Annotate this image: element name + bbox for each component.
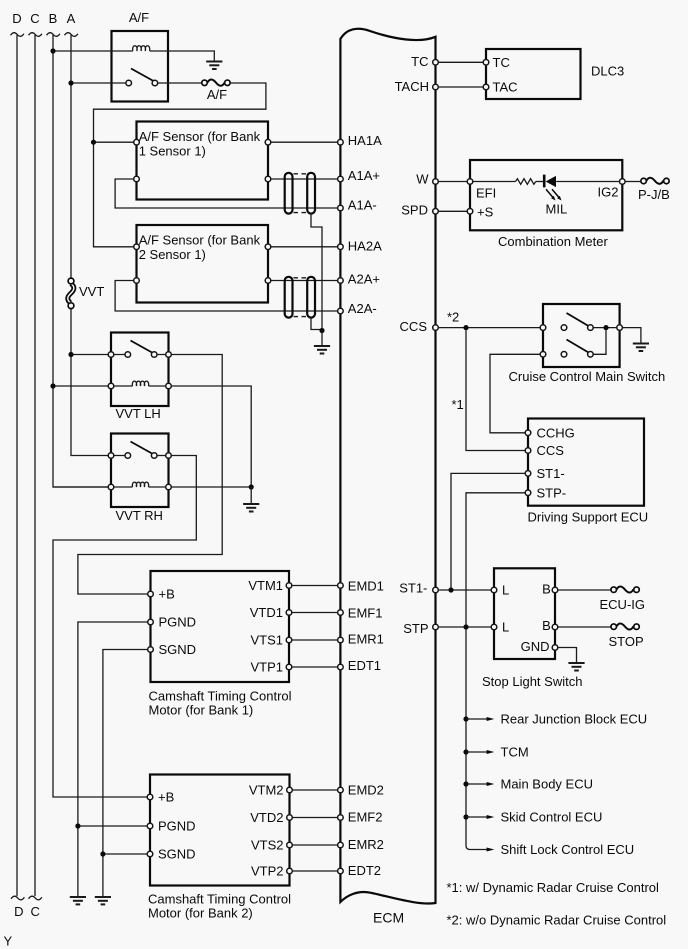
svg-text:EDT1: EDT1 <box>348 658 381 673</box>
pin bank2 right top <box>265 244 271 250</box>
svg-text:VTD2: VTD2 <box>250 810 283 825</box>
wire EDT1 <box>292 666 338 668</box>
pin +B bank1 <box>148 591 154 597</box>
camshaft motor bank1 box <box>151 571 290 682</box>
svg-text:CCS: CCS <box>400 319 428 334</box>
wire relay coil to ground <box>150 51 215 61</box>
wire A to VVT LH switch <box>71 354 126 356</box>
svg-text:ST1-: ST1- <box>537 466 565 481</box>
junction STP <box>463 624 468 629</box>
wire cruise right edge to ground <box>622 328 641 343</box>
junction VVT coils ground <box>249 484 254 489</box>
svg-text:VTS1: VTS1 <box>250 633 283 648</box>
svg-text:Camshaft Timing Control: Camshaft Timing Control <box>148 892 291 907</box>
ground PGND <box>70 897 86 904</box>
cruise switch bottom contact right <box>588 352 594 358</box>
DLC3 box <box>486 49 581 99</box>
fuse P-J/B <box>638 178 670 202</box>
wire VVT ground stem <box>250 487 252 504</box>
cruise switch bottom contact left <box>561 352 567 358</box>
ground at relay <box>206 62 222 70</box>
junction rear junction block <box>463 716 468 721</box>
svg-text:MIL: MIL <box>546 201 568 216</box>
ECM pin W <box>433 179 439 185</box>
VVT RH pin switch left edge <box>108 453 114 459</box>
svg-text:VVT: VVT <box>79 284 104 299</box>
ECM pin HA1A <box>338 139 344 145</box>
VVT RH switch contact left <box>125 453 131 459</box>
svg-text:W: W <box>416 172 429 187</box>
svg-text:VTD1: VTD1 <box>250 605 283 620</box>
svg-text:A: A <box>67 11 76 26</box>
svg-text:*1: *1 <box>452 397 464 412</box>
wire TC to DLC3 <box>438 61 483 63</box>
svg-text:ECU-IG: ECU-IG <box>600 597 646 612</box>
wire DSECU STP- down <box>466 493 525 627</box>
arrow rear junction block ECU <box>466 718 487 720</box>
svg-text:EMD1: EMD1 <box>348 579 384 594</box>
svg-text:STP-: STP- <box>537 485 567 500</box>
svg-text:Skid Control ECU: Skid Control ECU <box>501 810 603 825</box>
fuse STOP <box>609 623 644 649</box>
svg-text:A2A-: A2A- <box>348 301 377 316</box>
pin bank1 right top <box>265 139 271 145</box>
VVT LH box <box>111 333 169 407</box>
svg-text:TACH: TACH <box>395 79 429 94</box>
ground VVT coils <box>243 504 259 512</box>
ECM pin EMF2 <box>338 815 344 821</box>
wire VVT RH coil to ground junction <box>149 486 252 488</box>
DLC3 pin TC <box>483 60 489 66</box>
cruise pin bottom-left edge <box>540 352 546 358</box>
svg-text:D: D <box>14 904 23 919</box>
resistor MIL <box>516 179 536 185</box>
pin VTM2 <box>287 787 293 793</box>
wire B2 to fuse STOP <box>558 626 611 628</box>
VVT LH coil <box>132 381 148 386</box>
wire shield2 drain <box>311 317 322 330</box>
wire A1A- <box>115 179 338 208</box>
twisted pair 1 shield dashes bottom <box>294 212 307 214</box>
junction ST1- <box>448 587 453 592</box>
VVT LH pin switch left edge <box>108 352 114 358</box>
ECM pin EMF1 <box>338 610 344 616</box>
pin +B bank2 <box>147 794 153 800</box>
svg-text:GND: GND <box>521 639 550 654</box>
relay switch contact right <box>152 80 158 86</box>
svg-text:Y: Y <box>4 934 13 949</box>
wire heater feed to bank1 sensor <box>94 141 134 143</box>
wire CCHG to cruise bottom <box>490 354 540 433</box>
junction B-relay coil <box>50 48 55 53</box>
svg-text:ECM: ECM <box>373 910 404 926</box>
ECM pin EMD1 <box>338 583 344 589</box>
svg-text:ST1-: ST1- <box>399 581 427 596</box>
VVT LH switch contact right <box>151 352 157 358</box>
ECM pin EMD2 <box>338 787 344 793</box>
meter pin EFI <box>467 179 473 185</box>
svg-text:*2: *2 <box>447 310 459 325</box>
svg-text:A/F: A/F <box>207 87 227 102</box>
stop pin L2 <box>491 624 497 630</box>
svg-text:IG2: IG2 <box>598 185 619 200</box>
svg-text:Driving Support ECU: Driving Support ECU <box>528 510 649 525</box>
pin VTS1 <box>286 637 292 643</box>
relay switch contact left <box>126 80 132 86</box>
svg-text:VTM1: VTM1 <box>248 578 283 593</box>
cruise switch top blade <box>567 313 589 326</box>
wire break D bottom <box>11 896 24 900</box>
svg-text:HA1A: HA1A <box>348 133 382 148</box>
junction A-relay switch <box>68 80 73 85</box>
meter pin IG2 <box>620 179 626 185</box>
VVT RH pin coil left edge <box>108 484 114 490</box>
twisted pair 1 loop right <box>307 173 315 214</box>
svg-text:C: C <box>30 11 39 26</box>
svg-text:C: C <box>31 904 40 919</box>
VVT RH coil <box>132 482 148 487</box>
junction TCM <box>463 749 468 754</box>
LED MIL cathode bar <box>543 175 546 188</box>
wire bus A upper <box>70 35 72 279</box>
A/F sensor bank1 box <box>137 122 269 200</box>
DSECU pin CCS <box>525 448 531 454</box>
pin PGND bank2 <box>147 823 153 829</box>
wire EMR2 <box>292 844 337 846</box>
svg-text:A1A-: A1A- <box>348 197 377 212</box>
svg-text:Motor (for Bank 1): Motor (for Bank 1) <box>149 703 254 718</box>
svg-text:D: D <box>12 11 21 26</box>
ECM pin HA2A <box>338 244 344 250</box>
ECM pin A1A- <box>338 205 344 211</box>
DLC3 pin TAC <box>483 84 489 90</box>
twisted pair 2 loop right <box>307 277 315 318</box>
wire W to combination meter <box>438 181 467 183</box>
wire break B top <box>47 33 60 37</box>
wire CCS to cruise switch <box>438 327 540 329</box>
fuse A/F <box>202 79 230 102</box>
wire bus C <box>34 35 36 896</box>
svg-text:Cruise Control Main Switch: Cruise Control Main Switch <box>509 369 666 384</box>
junction SGND <box>100 851 105 856</box>
junction main body ECU <box>463 781 468 786</box>
wire EDT2 <box>292 870 337 872</box>
ECM pin A2A- <box>338 308 344 314</box>
svg-text:HA2A: HA2A <box>348 238 382 253</box>
junction PGND <box>75 823 80 828</box>
VVT RH pin switch right edge <box>166 453 172 459</box>
junction heater feed bank1 <box>91 140 96 145</box>
svg-text:2 Sensor 1): 2 Sensor 1) <box>139 247 206 262</box>
svg-text:+B: +B <box>159 587 175 602</box>
junction skid control ECU <box>463 814 468 819</box>
ECM pin STP <box>433 624 439 630</box>
cruise control main switch box <box>543 304 620 367</box>
arrow main body ECU <box>466 783 487 785</box>
wire bus D <box>16 35 18 896</box>
ECM pin EMR1 <box>338 637 344 643</box>
cruise pin top-right edge <box>617 325 623 331</box>
svg-text:B: B <box>49 11 58 26</box>
svg-text:VTM2: VTM2 <box>249 782 284 797</box>
pin bank1 left top <box>134 139 140 145</box>
wire A2A+ <box>271 280 338 282</box>
twisted pair 1 loop left <box>285 173 293 214</box>
svg-text:SPD: SPD <box>401 203 428 218</box>
VVT LH pin switch right edge <box>166 352 172 358</box>
svg-text:*2: w/o Dynamic Radar Cruise C: *2: w/o Dynamic Radar Cruise Control <box>447 913 667 928</box>
twisted pair 2 shield dashes bottom <box>294 316 307 318</box>
wire EMF1 <box>292 612 338 614</box>
svg-text:CCS: CCS <box>537 443 565 458</box>
svg-text:SGND: SGND <box>159 642 197 657</box>
VVT LH pin coil right edge <box>166 383 172 389</box>
A/F sensor bank2 box <box>137 225 269 303</box>
ECM pin SPD <box>433 209 439 215</box>
pin PGND bank1 <box>148 619 154 625</box>
stop pin GND <box>552 645 558 651</box>
pin bank2 left top <box>134 244 140 250</box>
wire EFI to resistor <box>473 181 516 183</box>
VVT LH pin coil left edge <box>108 383 114 389</box>
svg-text:VTS2: VTS2 <box>251 838 284 853</box>
arrow shift lock control ECU <box>487 848 495 852</box>
svg-text:STOP: STOP <box>609 634 644 649</box>
wire STP junction to ECU list <box>466 630 487 850</box>
pin bank1 right bottom <box>265 176 271 182</box>
wire VVT RH switch to +B bank2 <box>53 456 196 798</box>
svg-text:DLC3: DLC3 <box>591 64 624 79</box>
svg-text:VVT LH: VVT LH <box>116 406 161 421</box>
svg-text:VTP1: VTP1 <box>250 660 283 675</box>
wire A2A- <box>115 281 338 312</box>
svg-text:Motor (for Bank 2): Motor (for Bank 2) <box>148 906 253 921</box>
svg-text:STP: STP <box>403 621 428 636</box>
wire SGND bank2 <box>103 853 147 855</box>
junction CCS branch <box>463 325 468 330</box>
LED MIL triangle <box>546 176 556 187</box>
wire EMF2 <box>292 817 337 819</box>
wire B to relay coil <box>53 50 133 52</box>
ECM pin ST1- <box>433 587 439 593</box>
svg-text:TAC: TAC <box>493 80 518 95</box>
cruise switch top contact left <box>561 325 567 331</box>
svg-text:A/F Sensor (for Bank: A/F Sensor (for Bank <box>139 129 261 144</box>
junction B VVT LH coil <box>50 383 55 388</box>
wire shield ground stem <box>321 331 323 346</box>
pin VTP1 <box>286 664 292 670</box>
wire A1A+ <box>271 178 338 180</box>
meter pin +S <box>467 209 473 215</box>
svg-text:EMR2: EMR2 <box>348 837 384 852</box>
twisted pair 2 loop left <box>285 277 293 318</box>
stop light switch box <box>494 568 555 659</box>
wire cruise bottom contact up to junction <box>593 330 606 354</box>
wire STP to stop light switch <box>438 626 491 628</box>
junction cruise internal <box>603 325 608 330</box>
arrow skid control ECU <box>466 816 487 818</box>
DSECU pin STP- <box>525 490 531 496</box>
wire IG2 to fuse P-J/B <box>625 181 640 183</box>
VVT LH switch contact left <box>125 352 131 358</box>
svg-text:EDT2: EDT2 <box>348 863 381 878</box>
arrow TCM <box>466 751 487 753</box>
svg-text:Rear Junction Block ECU: Rear Junction Block ECU <box>501 712 648 727</box>
svg-text:A1A+: A1A+ <box>348 168 380 183</box>
ECM pin A2A+ <box>338 278 344 284</box>
twisted pair 2 shield dashes top <box>294 277 307 279</box>
VVT RH switch contact right <box>151 453 157 459</box>
cruise switch bottom blade <box>567 340 589 353</box>
combination meter box <box>470 160 622 230</box>
ground SGND <box>95 897 111 904</box>
svg-text:P-J/B: P-J/B <box>638 187 670 202</box>
junction shield drain <box>319 328 324 333</box>
svg-text:L: L <box>502 620 509 635</box>
svg-text:PGND: PGND <box>159 615 197 630</box>
wire break D top <box>11 33 24 37</box>
wire resistor to LED <box>536 181 544 183</box>
pin bank2 right bottom <box>265 278 271 284</box>
svg-text:TC: TC <box>493 55 510 70</box>
svg-text:1 Sensor 1): 1 Sensor 1) <box>139 144 206 159</box>
cruise switch top contact right <box>588 325 594 331</box>
svg-text:A2A+: A2A+ <box>348 272 380 287</box>
svg-text:EMF1: EMF1 <box>348 606 383 621</box>
svg-text:PGND: PGND <box>158 819 196 834</box>
wire LED to IG2 <box>556 181 619 183</box>
wire ST1- to stop light switch <box>438 589 491 591</box>
VVT RH switch blade <box>131 442 153 454</box>
DSECU pin CCHG <box>525 430 531 436</box>
wire fuse to A/F sensors heater feed <box>94 83 266 247</box>
pin bank1 left bottom <box>134 176 140 182</box>
stop pin B2 <box>552 624 558 630</box>
svg-text:Stop Light Switch: Stop Light Switch <box>482 674 582 689</box>
pin VTD2 <box>287 815 293 821</box>
pin VTS2 <box>287 842 293 848</box>
wire PGND bank2 <box>78 825 147 827</box>
stop pin B1 <box>552 587 558 593</box>
wire bus B <box>53 35 111 487</box>
LED MIL arrow 1 <box>546 189 553 197</box>
svg-text:VTP2: VTP2 <box>251 864 284 879</box>
pin SGND bank1 <box>148 647 154 653</box>
relay switch blade <box>131 69 154 82</box>
wire VVT LH switch to +B bank1 <box>78 355 222 595</box>
wire B to VVT RH coil <box>53 486 133 488</box>
wire PGND bank1 down <box>78 622 148 896</box>
wire SGND bank1 down <box>103 650 148 897</box>
svg-text:EMF2: EMF2 <box>348 810 383 825</box>
wire A to relay switch <box>71 82 126 84</box>
svg-text:*1: w/ Dynamic Radar Cruise Co: *1: w/ Dynamic Radar Cruise Control <box>447 880 660 895</box>
fuse ECU-IG <box>600 586 646 612</box>
svg-text:VVT RH: VVT RH <box>116 508 163 523</box>
wire bus A lower <box>71 309 125 456</box>
ECM pin EDT1 <box>338 664 344 670</box>
wire HA1A <box>271 141 338 143</box>
svg-text:A/F Sensor (for Bank: A/F Sensor (for Bank <box>139 232 261 247</box>
wire GND to ground <box>558 648 577 663</box>
ground cruise switch <box>633 344 649 352</box>
svg-text:Main Body ECU: Main Body ECU <box>501 777 593 792</box>
wire relay switch to fuse A/F <box>158 82 202 84</box>
svg-text:TCM: TCM <box>501 745 529 760</box>
svg-text:Combination Meter: Combination Meter <box>498 234 608 249</box>
driving support ECU box <box>528 419 644 506</box>
wire B1 to fuse ECU-IG <box>558 589 611 591</box>
wire EMD1 <box>292 585 338 587</box>
fuse VVT <box>68 278 105 309</box>
wire SPD to combination meter <box>438 210 467 212</box>
svg-text:B: B <box>542 618 551 633</box>
svg-text:EMD2: EMD2 <box>348 782 384 797</box>
ECM pin TACH <box>433 84 439 90</box>
pin SGND bank2 <box>147 851 153 857</box>
VVT RH box <box>111 434 169 508</box>
ECM pin EMR2 <box>338 842 344 848</box>
svg-text:EMR1: EMR1 <box>348 631 384 646</box>
VVT LH switch blade <box>131 341 153 353</box>
camshaft motor bank2 box <box>150 775 290 886</box>
ECM pin TC <box>433 60 439 66</box>
wire EMD2 <box>292 789 337 791</box>
twisted pair 1 shield dashes top <box>294 173 307 175</box>
wire cruise top contact to right edge <box>593 327 617 329</box>
relay A/F box <box>112 31 169 102</box>
svg-text:EFI: EFI <box>476 186 496 201</box>
wire B to VVT LH coil <box>53 385 133 387</box>
wire DSECU ST1- down <box>451 473 525 590</box>
wire HA2A <box>271 246 338 248</box>
pin VTP2 <box>287 868 293 874</box>
LED MIL arrow 2 <box>552 189 559 197</box>
svg-text:SGND: SGND <box>158 847 196 862</box>
ECM box <box>340 29 435 904</box>
wire VVT LH coil to ground <box>149 386 252 487</box>
ground shield <box>314 346 330 354</box>
wire shield1 drain <box>311 213 322 331</box>
ECM pin EDT2 <box>338 868 344 874</box>
wire CCS junction to DSECU <box>466 330 525 450</box>
svg-text:Shift Lock Control ECU: Shift Lock Control ECU <box>501 842 635 857</box>
svg-text:B: B <box>542 582 551 597</box>
ground stop light switch <box>568 663 584 671</box>
svg-text:TC: TC <box>411 54 428 69</box>
relay coil <box>133 46 150 51</box>
svg-text:+S: +S <box>477 204 494 219</box>
svg-text:+B: +B <box>158 790 174 805</box>
svg-text:Camshaft Timing Control: Camshaft Timing Control <box>149 689 292 704</box>
svg-text:CCHG: CCHG <box>537 425 575 440</box>
wire TACH to DLC3 <box>438 86 483 88</box>
cruise pin top-left edge <box>540 325 546 331</box>
wire break A top <box>65 33 78 37</box>
svg-text:A/F: A/F <box>129 10 149 25</box>
pin VTM1 <box>286 583 292 589</box>
VVT RH pin coil right edge <box>166 484 172 490</box>
svg-text:L: L <box>502 583 509 598</box>
DSECU pin ST1- <box>525 471 531 477</box>
wire EMR1 <box>292 639 338 641</box>
pin bank2 left bottom <box>134 278 140 284</box>
pin VTD1 <box>286 610 292 616</box>
wire break C top <box>29 33 42 37</box>
ECM pin CCS <box>433 325 439 331</box>
wire break C bottom <box>29 896 42 900</box>
stop pin L1 <box>491 587 497 593</box>
